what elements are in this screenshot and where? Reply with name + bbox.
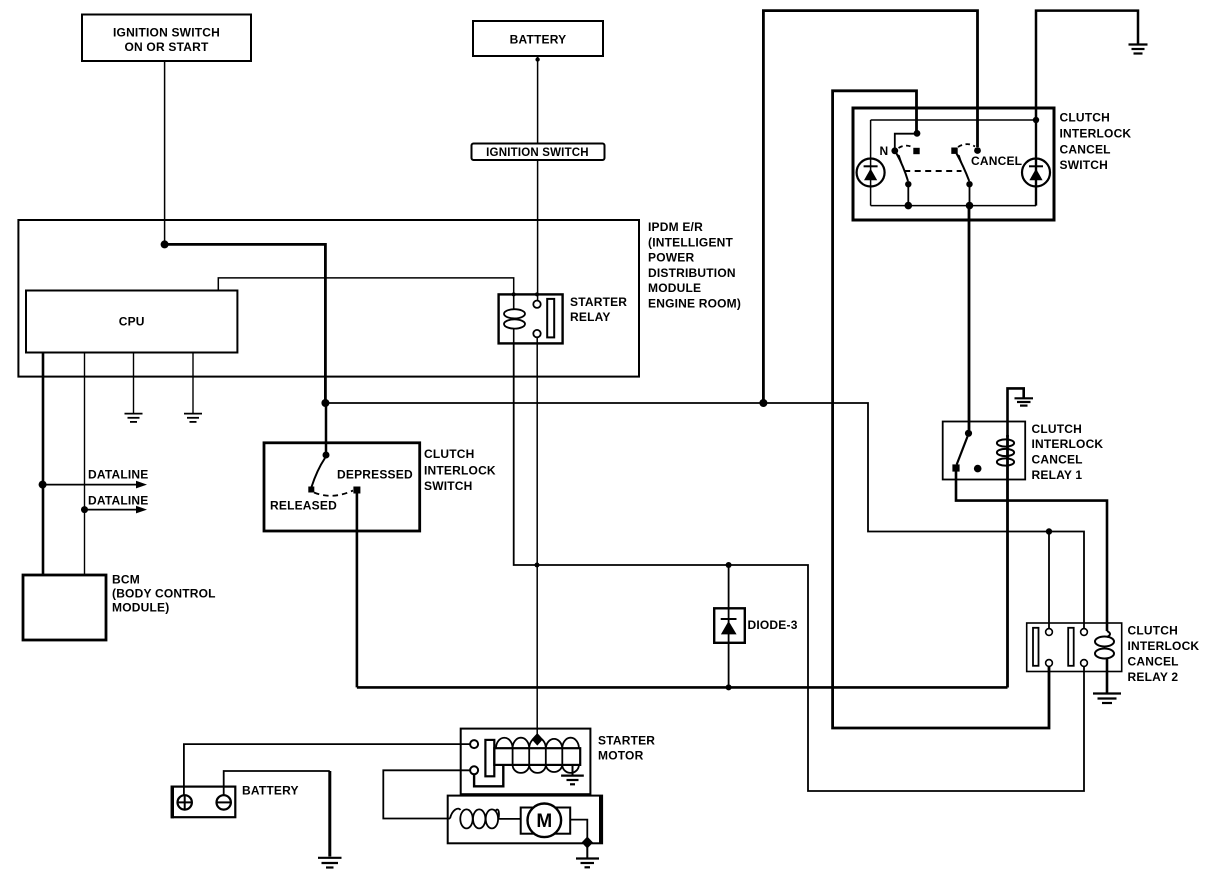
svg-text:POWER: POWER [648, 251, 694, 265]
relay1 switch arm [957, 437, 968, 465]
node junction at (164.6,244.4) [161, 240, 169, 248]
svg-text:SWITCH: SWITCH [1060, 158, 1109, 172]
starter motor lower box [448, 796, 602, 868]
svg-text:CANCEL: CANCEL [1032, 453, 1083, 467]
wire inner top line [871, 119, 1036, 121]
dashed arc N [899, 146, 914, 148]
ground battery [318, 858, 342, 868]
battery minus terminal [217, 795, 231, 809]
dashed gang link [904, 170, 961, 172]
node relay1 switch top contact [965, 430, 972, 437]
node dot pin top on box edge [535, 292, 539, 296]
node N alternate contact [913, 148, 919, 154]
wire pin2 to plunger [474, 765, 503, 786]
ground under CPU pin 3 [125, 414, 143, 422]
node junction bottom line right [966, 202, 974, 210]
wire thick horizontal to relay1 coil [357, 686, 1008, 689]
wire cancel switch out to relay1 switch [968, 206, 971, 430]
svg-text:CLUTCH: CLUTCH [1060, 111, 1111, 125]
relay2 pin top-left [1046, 629, 1053, 636]
node junction dataline 1 [39, 481, 47, 489]
clutch interlock cancel relay 1 box [943, 422, 1025, 480]
svg-text:BATTERY: BATTERY [510, 33, 567, 47]
dataline 2 arrow [85, 494, 149, 514]
svg-text:DATALINE: DATALINE [88, 494, 148, 508]
wire CPU pin 3 to ground [133, 353, 135, 414]
node cancel fixed contact [951, 148, 957, 154]
node relay1 unused contact [974, 465, 982, 473]
solenoid core [494, 748, 580, 765]
svg-text:BATTERY: BATTERY [242, 784, 299, 798]
dataline 1 arrow [43, 468, 149, 489]
relay1 coil with ground at top [997, 388, 1024, 687]
svg-text:CANCEL: CANCEL [1060, 143, 1111, 157]
relay contact bar [547, 299, 554, 338]
solenoid winding crossing strokes [513, 748, 563, 765]
label relay 2 [1128, 624, 1200, 685]
wire left frame: N pivot up-over-down to relay2 pin [833, 91, 1049, 728]
node junction at (325.4,403) [321, 399, 329, 407]
wire CPU pin 1 (thick) to BCM [42, 353, 45, 575]
svg-text:RELAY 1: RELAY 1 [1032, 468, 1083, 482]
svg-text:SWITCH: SWITCH [424, 479, 473, 493]
wire elbow to N contact [895, 134, 917, 148]
clutch interlock cancel switch box [853, 108, 1054, 220]
svg-text:CPU: CPU [119, 315, 145, 329]
solenoid winding bottom arcs [513, 765, 579, 773]
ground motor [576, 859, 599, 868]
node relay1 switch bottom contact [952, 464, 959, 471]
motor M [521, 808, 571, 834]
svg-text:INTERLOCK: INTERLOCK [424, 464, 496, 478]
wire CPU pin 4 to ground [192, 353, 194, 414]
svg-text:IGNITION SWITCH: IGNITION SWITCH [113, 26, 220, 40]
svg-text:RELEASED: RELEASED [270, 499, 337, 513]
relay2 coil [1095, 631, 1114, 693]
node small dot below battery [535, 57, 539, 61]
wire relay contact down to starter motor [536, 337, 538, 736]
wire ignition switch to starter relay pin [537, 160, 539, 301]
switch dashed travel arc [314, 491, 353, 496]
wire frame up-over to cancel switch pivot [763, 11, 977, 403]
wire CPU pin 2 to BCM [84, 353, 86, 575]
IPDM E/R box [18, 220, 639, 377]
wire cancel lamp net to ground top right [1036, 11, 1138, 120]
indicator lamp left [857, 120, 885, 206]
wire CPU to starter relay coil [218, 278, 513, 295]
svg-text:CLUTCH: CLUTCH [1128, 624, 1179, 638]
svg-text:MOTOR: MOTOR [598, 749, 644, 763]
switch arm (released position) [312, 458, 326, 487]
svg-text:N: N [880, 144, 889, 158]
node junction bottom line left [905, 202, 913, 210]
label clutch interlock cancel switch [1060, 111, 1132, 173]
relay2 contact bar 2 [1068, 628, 1074, 666]
node junction (916.5,133.4) [914, 130, 921, 137]
relay2 pin top-right [1081, 629, 1088, 636]
wire starter motor pin2 to motor coil [383, 770, 470, 818]
node arm end N side [905, 181, 911, 187]
pin 2 [470, 766, 478, 774]
svg-text:IPDM E/R: IPDM E/R [648, 220, 703, 234]
solenoid winding top arcs [496, 738, 579, 749]
CPU box [26, 291, 237, 353]
wire battery to ignition switch label [537, 56, 539, 144]
node junction diode bottom (728.6,687.4) [726, 684, 732, 690]
svg-text:STARTER: STARTER [598, 734, 655, 748]
ignition switch on-or-start box [82, 15, 251, 62]
wire battery plus to starter motor pin1 [184, 744, 470, 795]
svg-text:INTERLOCK: INTERLOCK [1128, 639, 1200, 653]
wire switch contact down [356, 492, 359, 687]
relay pin top [533, 301, 540, 308]
svg-text:DISTRIBUTION: DISTRIBUTION [648, 266, 736, 280]
node junction dataline 2 [81, 506, 88, 513]
starter motor solenoid box [461, 729, 656, 795]
svg-text:CANCEL: CANCEL [1128, 655, 1179, 669]
wire arm to bottom line [907, 184, 909, 205]
svg-text:RELAY 2: RELAY 2 [1128, 670, 1179, 684]
ground under CPU pin 4 [184, 414, 202, 422]
svg-text:DEPRESSED: DEPRESSED [337, 468, 413, 482]
node junction lamp right top (1036,120) [1033, 117, 1039, 123]
svg-text:BCM: BCM [112, 573, 140, 587]
wire diode vertical [728, 565, 730, 687]
svg-text:STARTER: STARTER [570, 295, 627, 309]
relay coil [513, 294, 515, 309]
ground relay1 coil [1015, 398, 1034, 405]
internal ground stub [572, 765, 574, 775]
svg-text:MODULE): MODULE) [112, 601, 169, 615]
indicator lamp right [1022, 120, 1050, 206]
wire branch down to relay2 pin [1048, 532, 1050, 629]
node N contact [891, 147, 898, 154]
node depressed contact (356.9,490) [353, 487, 360, 494]
wire battery minus to ground [224, 771, 330, 795]
relay2 pin bottom-right [1081, 660, 1088, 667]
node arm end cancel side [966, 181, 972, 187]
motor series coil [450, 809, 461, 819]
pin 1 [470, 740, 478, 748]
svg-text:CLUTCH: CLUTCH [424, 447, 475, 461]
svg-text:CLUTCH: CLUTCH [1032, 422, 1083, 436]
wire relay1 switch out to relay2 coil [956, 471, 1107, 631]
solenoid plunger bar [485, 740, 494, 776]
BCM box [23, 573, 216, 641]
svg-text:ON OR START: ON OR START [125, 40, 209, 54]
svg-text:(INTELLIGENT: (INTELLIGENT [648, 235, 734, 249]
starter relay [499, 292, 628, 343]
node junction wire-to-coil (537.3,739.3) [532, 733, 543, 746]
wire arm to bottom line [969, 184, 971, 205]
label relay 1 [1032, 422, 1104, 482]
wire ignition-on-start to IPDM [164, 61, 166, 244]
relay pin bottom [533, 330, 540, 337]
node junction (537,565) [535, 563, 540, 568]
ground top right [1129, 45, 1148, 54]
clutch interlock switch box [264, 443, 420, 531]
wire motor to ground [570, 820, 587, 843]
wire thick branch to clutch switch net [165, 244, 326, 403]
wire down into clutch interlock switch [325, 403, 328, 452]
node junction on box edge [582, 837, 593, 849]
svg-text:MODULE: MODULE [648, 281, 701, 295]
node junction at (1049,531.5) [1046, 528, 1052, 534]
svg-text:INTERLOCK: INTERLOCK [1032, 437, 1104, 451]
svg-text:DATALINE: DATALINE [88, 468, 148, 482]
relay2 pin bottom-left [1046, 660, 1053, 667]
ignition switch inline label box [472, 144, 605, 161]
svg-text:M: M [536, 811, 552, 832]
node cancel pivot [974, 147, 981, 154]
label clutch interlock switch [424, 447, 496, 493]
label IPDM E/R [648, 220, 741, 311]
ground starter motor internal [561, 776, 584, 785]
node dot coil top on box edge [512, 292, 516, 296]
svg-text:(BODY CONTROL: (BODY CONTROL [112, 587, 216, 601]
svg-text:INTERLOCK: INTERLOCK [1060, 127, 1132, 141]
ground relay2 coil [1093, 694, 1121, 704]
switch arm cancel side [957, 154, 970, 182]
relay2 contact bar 1 [1033, 628, 1039, 666]
svg-text:IGNITION SWITCH: IGNITION SWITCH [486, 147, 589, 159]
battery plus terminal [178, 795, 192, 809]
node switch pivot (326,455) [323, 452, 330, 459]
node junction (763.4,403) [759, 399, 767, 407]
wire inner bottom line [871, 205, 1036, 207]
svg-text:RELAY: RELAY [570, 310, 611, 324]
diode D3 [714, 608, 797, 643]
svg-text:CANCEL: CANCEL [971, 154, 1022, 168]
battery (bottom) [172, 784, 299, 819]
battery box (top) [473, 21, 603, 56]
node junction diode top (728.6,565) [726, 562, 732, 568]
switch arm N side [897, 154, 909, 182]
wire horizontal net y=403 to relay2 pins [325, 403, 1084, 629]
dashed arc CANCEL [958, 144, 975, 147]
svg-text:ENGINE ROOM): ENGINE ROOM) [648, 297, 741, 311]
svg-text:DIODE-3: DIODE-3 [748, 618, 798, 632]
wire starter relay coil out: y=565 run to relay2 pin [514, 343, 1084, 791]
clutch interlock cancel relay 2 box [1027, 623, 1122, 672]
